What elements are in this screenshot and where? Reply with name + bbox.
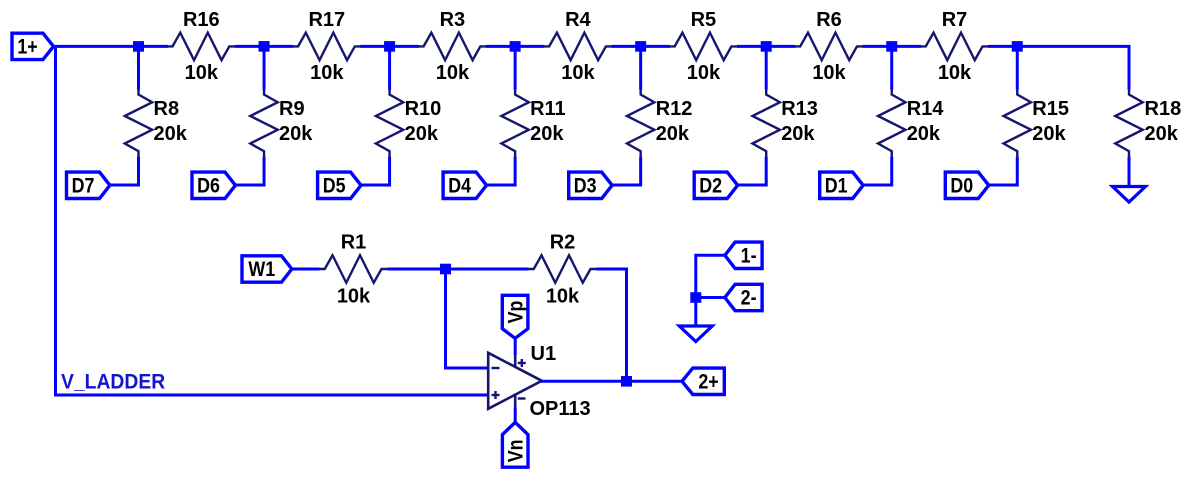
svg-text:R5: R5 <box>691 9 717 31</box>
resistor R16 <box>167 9 236 84</box>
svg-text:R18: R18 <box>1145 98 1182 120</box>
pin flag D3 <box>569 172 612 198</box>
op-amp V+ pin <box>515 354 526 368</box>
wire node to R10 <box>388 51 391 89</box>
svg-text:R4: R4 <box>565 9 591 31</box>
wire node to R14 <box>890 51 893 89</box>
ground under R18 <box>1113 187 1146 203</box>
pin flag Vp <box>502 295 528 338</box>
wire bus segment after R5 <box>737 45 796 48</box>
svg-text:2+: 2+ <box>698 370 718 394</box>
wire W1 to R1 <box>292 268 320 271</box>
svg-text:20k: 20k <box>154 123 188 145</box>
svg-text:10k: 10k <box>812 62 846 84</box>
op-amp non-inverting input mark <box>492 391 500 399</box>
svg-text:R3: R3 <box>440 9 466 31</box>
wire node to R8 <box>137 51 140 89</box>
resistor R6 <box>795 9 864 84</box>
wire bus segment after R17 <box>360 45 419 48</box>
svg-text:D4: D4 <box>448 174 471 198</box>
junction node 8 <box>1012 41 1023 52</box>
svg-text:R1: R1 <box>341 232 367 254</box>
resistor R17 <box>293 9 362 84</box>
wire R15 to D0 <box>989 157 1017 185</box>
svg-text:D0: D0 <box>950 174 973 198</box>
wire node to R12 <box>639 51 642 89</box>
wire R1 to node A <box>388 268 441 271</box>
svg-text:20k: 20k <box>530 123 564 145</box>
resistor R8 <box>125 89 188 158</box>
op-amp U1 <box>488 343 590 420</box>
junction node 5 <box>635 41 646 52</box>
svg-text:U1: U1 <box>531 343 557 365</box>
svg-text:D1: D1 <box>825 174 848 198</box>
output node junction <box>621 376 632 387</box>
wire Vp to op-amp <box>514 337 517 355</box>
resistor R1 <box>319 232 388 308</box>
junction node 4 <box>510 41 521 52</box>
resistor R15 <box>1004 89 1069 158</box>
svg-text:10k: 10k <box>436 62 470 84</box>
wire R13 to D2 <box>738 157 766 185</box>
svg-text:D6: D6 <box>197 174 220 198</box>
wire R12 to D3 <box>613 157 641 185</box>
wire V_LADDER rail <box>56 46 490 395</box>
pin flag D4 <box>443 172 486 198</box>
wire R10 to D5 <box>362 157 390 185</box>
svg-text:R6: R6 <box>816 9 842 31</box>
wire bus segment after R6 <box>862 45 921 48</box>
wire output to 2+ <box>632 380 683 383</box>
wire node A to R2 <box>451 268 529 271</box>
pin flag D1 <box>820 172 863 198</box>
svg-text:Vn: Vn <box>504 440 528 463</box>
wire bus segment after R4 <box>611 45 670 48</box>
resistor R13 <box>752 89 817 158</box>
svg-text:R8: R8 <box>154 98 180 120</box>
wire R9 to D6 <box>236 157 264 185</box>
junction node 1 <box>133 41 144 52</box>
svg-text:10k: 10k <box>938 62 972 84</box>
resistor R9 <box>250 89 313 158</box>
pin flag 1- <box>725 242 762 268</box>
wire R11 to D4 <box>487 157 515 185</box>
resistor R3 <box>418 9 487 84</box>
svg-text:10k: 10k <box>546 286 580 308</box>
svg-text:20k: 20k <box>1032 123 1066 145</box>
svg-text:D3: D3 <box>574 174 597 198</box>
wire node A to op-amp inverting input <box>446 274 490 368</box>
svg-text:2-: 2- <box>741 286 757 310</box>
junction node 3 <box>384 41 395 52</box>
op-amp V- pin <box>515 395 525 409</box>
svg-text:10k: 10k <box>310 62 344 84</box>
svg-text:D2: D2 <box>699 174 722 198</box>
svg-text:R12: R12 <box>656 98 693 120</box>
svg-text:R10: R10 <box>405 98 442 120</box>
svg-text:R7: R7 <box>942 9 968 31</box>
svg-text:R13: R13 <box>781 98 818 120</box>
wire bus segment after R3 <box>486 45 545 48</box>
wire bus segment after R16 <box>235 45 294 48</box>
svg-text:R14: R14 <box>907 98 945 120</box>
wire bus from last node to R18 corner <box>1017 46 1129 89</box>
wire bus segment after R7 <box>988 45 1017 48</box>
net label V_LADDER <box>61 370 165 394</box>
junction node 7 <box>886 41 897 52</box>
svg-text:R17: R17 <box>308 9 345 31</box>
pin flag 2+ <box>682 368 724 394</box>
node 1-/2- junction <box>690 292 701 303</box>
svg-text:D5: D5 <box>323 174 346 198</box>
pin flag D7 <box>67 172 110 198</box>
resistor R10 <box>376 89 441 158</box>
resistor R12 <box>627 89 692 158</box>
resistor R11 <box>501 89 565 158</box>
wire op-amp to Vn <box>514 408 517 424</box>
svg-text:20k: 20k <box>405 123 439 145</box>
wire 2- to node <box>701 296 726 299</box>
svg-text:20k: 20k <box>656 123 690 145</box>
svg-text:Vp: Vp <box>504 301 528 324</box>
svg-text:10k: 10k <box>561 62 595 84</box>
wire node to R9 <box>263 51 266 89</box>
svg-text:R9: R9 <box>279 98 305 120</box>
svg-text:D7: D7 <box>72 174 95 198</box>
pin flag D0 <box>945 172 988 198</box>
svg-text:R16: R16 <box>183 9 220 31</box>
svg-text:R2: R2 <box>550 232 576 254</box>
pin flag D6 <box>192 172 235 198</box>
wire R2 to output node <box>597 269 627 381</box>
svg-text:R11: R11 <box>530 98 566 120</box>
pin flag Vn <box>502 422 528 467</box>
resistor R18 <box>1115 89 1181 158</box>
wire node to ground <box>694 303 697 328</box>
svg-text:20k: 20k <box>781 123 815 145</box>
pin flag 1+ <box>12 33 54 59</box>
svg-text:20k: 20k <box>1145 123 1179 145</box>
wire node to R11 <box>514 51 517 89</box>
pin flag D2 <box>694 172 737 198</box>
wire R8 to D7 <box>111 157 139 185</box>
junction node 2 <box>259 41 270 52</box>
wire node to R15 <box>1016 51 1019 89</box>
svg-text:20k: 20k <box>279 123 313 145</box>
svg-text:OP113: OP113 <box>530 398 591 420</box>
svg-text:1-: 1- <box>741 244 757 268</box>
wire op-amp output <box>541 380 622 383</box>
resistor R5 <box>669 9 738 84</box>
wire 1- to node <box>696 255 726 297</box>
resistor R7 <box>920 9 989 84</box>
svg-text:1+: 1+ <box>17 35 37 59</box>
pin flag 2- <box>725 284 762 310</box>
resistor R14 <box>878 89 944 158</box>
wire bus from 1+ to R16 <box>52 45 168 48</box>
wire node to R13 <box>765 51 768 89</box>
svg-text:10k: 10k <box>337 286 371 308</box>
svg-text:20k: 20k <box>907 123 941 145</box>
wire R18 to ground <box>1128 157 1131 187</box>
svg-text:10k: 10k <box>185 62 219 84</box>
junction node 6 <box>761 41 772 52</box>
op-amp inverting input mark <box>492 367 500 369</box>
wire R14 to D1 <box>864 157 892 185</box>
ground under 1-/2- <box>679 326 712 342</box>
svg-text:W1: W1 <box>248 258 275 282</box>
svg-text:V_LADDER: V_LADDER <box>61 370 165 394</box>
svg-text:10k: 10k <box>687 62 721 84</box>
node A junction <box>440 264 451 275</box>
pin flag W1 <box>242 256 292 282</box>
resistor R2 <box>528 232 597 308</box>
resistor R4 <box>544 9 613 84</box>
pin flag D5 <box>318 172 361 198</box>
svg-text:R15: R15 <box>1032 98 1069 120</box>
